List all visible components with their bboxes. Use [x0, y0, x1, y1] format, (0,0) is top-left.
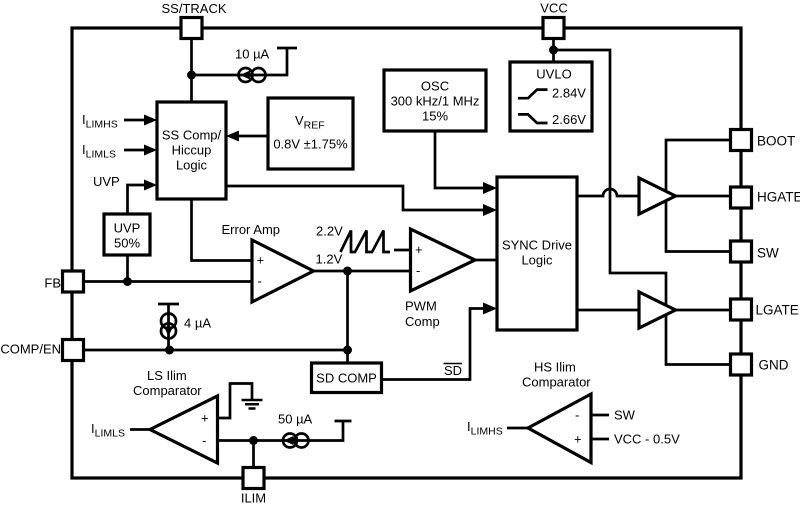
svg-text:Comp: Comp: [405, 314, 440, 329]
svg-text:50 µA: 50 µA: [278, 412, 313, 427]
pin LGATE: [731, 299, 799, 320]
wire HS comparator + to VCC-0.5V label: [591, 438, 609, 441]
svg-text:UVP: UVP: [93, 174, 120, 189]
svg-text:HS Ilim: HS Ilim: [534, 360, 576, 375]
block U1 SS Comp/Hiccup Logic: [157, 102, 226, 199]
block VREF 0.8V: [268, 98, 353, 169]
svg-text:2.66V: 2.66V: [552, 112, 586, 127]
pin SS/TRACK: [161, 1, 226, 39]
comparator PWM Comp: [405, 229, 475, 329]
wire OSC to SYNC logic: [435, 131, 483, 188]
label SD bar: [444, 363, 463, 378]
svg-text:Comparator: Comparator: [522, 375, 591, 390]
block SYNC Drive Logic: [497, 177, 577, 330]
svg-text:SW: SW: [614, 408, 636, 423]
wire SS Comp out to SYNC logic: [226, 186, 483, 210]
pin SW: [731, 241, 780, 262]
wire ILIMHS to HS comparator: [507, 427, 528, 430]
node ILIM junction: [249, 436, 258, 445]
svg-text:15%: 15%: [422, 109, 448, 124]
comparator HS Ilim: [522, 360, 591, 463]
wire FB to error amp -: [84, 280, 253, 283]
svg-text:+: +: [201, 411, 209, 426]
svg-text:VCC: VCC: [540, 1, 567, 16]
wire ILIMLS to LS comparator: [130, 428, 150, 431]
svg-text:SS/TRACK: SS/TRACK: [161, 1, 226, 16]
wire LS comparator + to ground: [218, 384, 253, 419]
svg-text:GND: GND: [759, 358, 789, 373]
svg-text:FB: FB: [44, 276, 61, 291]
svg-text:UVP: UVP: [114, 221, 141, 236]
wire LGATE driver to GND pin: [666, 316, 731, 365]
node ILIMHS input: [82, 112, 157, 131]
wire error amp out to PWM -: [314, 270, 411, 273]
IC boundary: [72, 28, 741, 478]
op-amp Error Amp: [222, 222, 314, 302]
svg-text:4 µA: 4 µA: [184, 316, 211, 331]
svg-text:BOOT: BOOT: [757, 134, 795, 149]
svg-text:Logic: Logic: [176, 158, 208, 173]
pin GND: [731, 354, 789, 375]
svg-text:0.8V ±1.75%: 0.8V ±1.75%: [273, 137, 348, 152]
node 4uA junction: [165, 346, 174, 355]
node ILIMLS input: [82, 142, 157, 161]
wire HGATE driver out: [676, 195, 731, 198]
svg-text:Error Amp: Error Amp: [222, 222, 281, 237]
block UVLO: [510, 62, 592, 131]
svg-text:2.2V: 2.2V: [316, 224, 343, 239]
wire SS to error amp +: [192, 199, 253, 261]
node SS junction: [187, 71, 196, 80]
svg-text:-: -: [416, 263, 420, 278]
svg-text:Comparator: Comparator: [133, 383, 202, 398]
svg-text:SYNC Drive: SYNC Drive: [502, 238, 572, 253]
wire HS comparator - to SW label: [591, 414, 609, 417]
wire SYNC to HGATE driver with hop: [577, 189, 639, 196]
wire SD COMP to SYNC logic: [382, 309, 484, 380]
svg-text:PWM: PWM: [405, 299, 437, 314]
node UVP input: [93, 174, 157, 214]
pin COMP/EN: [0, 340, 83, 361]
wire SW to driver bottom: [666, 202, 731, 252]
svg-text:+: +: [257, 253, 265, 268]
svg-text:+: +: [574, 432, 582, 447]
block UVP 50%: [104, 214, 150, 255]
comparator LS Ilim: [133, 368, 218, 463]
pin HGATE: [731, 187, 800, 208]
block SD COMP: [312, 363, 382, 393]
buffer LGATE driver: [639, 292, 676, 328]
svg-text:1.2V: 1.2V: [316, 252, 343, 267]
current source I2 4uA: [158, 304, 211, 350]
pin FB: [44, 271, 83, 292]
svg-text:-: -: [575, 408, 579, 423]
wire UVP box to FB line: [126, 255, 129, 282]
svg-text:+: +: [415, 242, 423, 257]
svg-text:LGATE: LGATE: [756, 303, 799, 318]
svg-text:10 µA: 10 µA: [235, 47, 270, 62]
svg-text:VCC - 0.5V: VCC - 0.5V: [614, 432, 680, 447]
wire LS comparator - to ILIM: [218, 421, 352, 441]
pin BOOT: [731, 130, 796, 151]
svg-text:-: -: [258, 274, 262, 289]
buffer HGATE driver: [639, 178, 676, 214]
svg-text:50%: 50%: [114, 236, 140, 251]
node VCC junction: [549, 46, 558, 55]
pin ILIM: [241, 468, 266, 506]
svg-text:2.84V: 2.84V: [552, 86, 586, 101]
svg-text:OSC: OSC: [421, 79, 449, 94]
pin VCC: [540, 1, 567, 39]
wire ILIM junction to pin: [252, 441, 255, 468]
block OSC: [384, 70, 486, 131]
svg-text:300 kHz/1 MHz: 300 kHz/1 MHz: [391, 94, 480, 109]
waveform sawtooth ramp: [341, 231, 391, 253]
wire BOOT to driver top: [666, 140, 731, 191]
svg-text:SD COMP: SD COMP: [316, 371, 377, 386]
ground: [242, 400, 263, 409]
svg-text:LS Ilim: LS Ilim: [147, 368, 187, 383]
svg-text:-: -: [202, 433, 206, 448]
wire PWM out to SYNC logic: [475, 259, 497, 262]
wire 10uA branch: [192, 48, 298, 75]
svg-text:Logic: Logic: [521, 253, 553, 268]
svg-text:COMP/EN: COMP/EN: [0, 342, 61, 357]
svg-text:HGATE: HGATE: [757, 190, 800, 205]
wire SS/TRACK vertical: [190, 39, 193, 103]
svg-text:ILIM: ILIM: [241, 491, 266, 506]
current source I3 50uA: [278, 412, 313, 448]
wire COMP node down to SD COMP: [346, 271, 349, 363]
svg-text:SD: SD: [444, 363, 462, 378]
wire LGATE driver out: [676, 309, 731, 312]
node COMP/EN junction: [343, 346, 352, 355]
wire COMP/EN horizontal: [84, 349, 348, 352]
svg-text:SS Comp/: SS Comp/: [162, 128, 222, 143]
wire VCC down and to LGATE driver rail: [554, 39, 667, 305]
wire SYNC to LGATE driver: [577, 309, 639, 312]
current source I1 10uA: [235, 47, 270, 83]
wire VREF to SS Comp: [239, 135, 268, 138]
node FB/UVP junction: [123, 277, 132, 286]
node COMP junction: [343, 267, 352, 276]
svg-text:Hiccup: Hiccup: [172, 143, 212, 158]
svg-text:SW: SW: [757, 246, 779, 261]
wire ramp to PWM +: [394, 249, 411, 252]
svg-text:UVLO: UVLO: [536, 67, 571, 82]
